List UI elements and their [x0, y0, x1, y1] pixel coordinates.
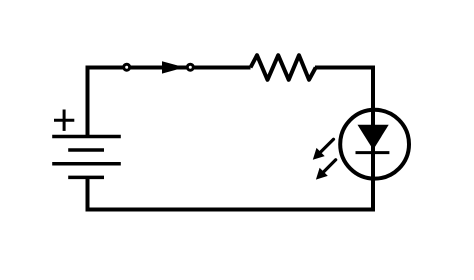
LED: lower light-emission arrow: [316, 160, 336, 180]
wire: from battery negative plate down to bottom-left corner and bottom return to LED cathode: [88, 177, 376, 209]
LED: upper light-emission arrow: [313, 139, 334, 160]
LED: cathode bar: [356, 151, 390, 154]
battery: negative short plate 2: [68, 148, 104, 152]
wire: top horizontal from top-left corner to resistor left lead: [86, 66, 251, 70]
battery: positive long plate 3: [52, 162, 121, 166]
battery: negative short plate 4: [68, 176, 104, 180]
battery: plus polarity label: [54, 110, 74, 131]
LED: envelope circle: [340, 110, 409, 179]
wire: left vertical from top-left corner down to battery + plate: [88, 68, 90, 137]
switch: left terminal circle: [124, 64, 130, 70]
battery: positive long plate 1: [52, 135, 121, 139]
switch: right terminal circle: [187, 64, 193, 70]
switch: actuation arrowhead pointing right: [162, 61, 185, 73]
LED: anode triangle (pointing down): [358, 125, 389, 150]
resistor: zigzag body: [251, 55, 316, 80]
wire: top horizontal from resistor right lead to top-right corner and down the right side: [315, 68, 373, 210]
